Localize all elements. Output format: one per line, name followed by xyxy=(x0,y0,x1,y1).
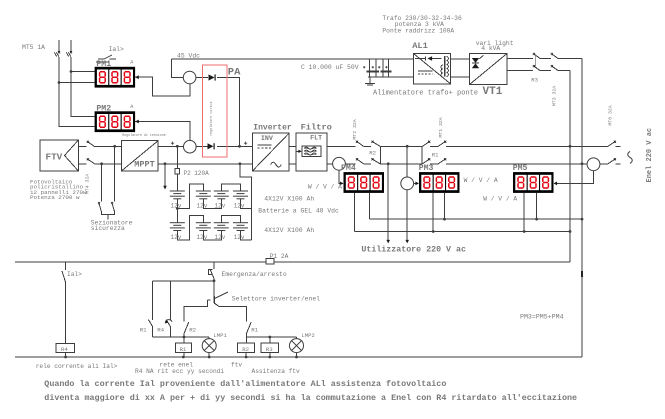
svg-text:Ial>: Ial> xyxy=(109,46,125,53)
svg-text:R2: R2 xyxy=(369,149,376,156)
svg-text:MT2 32A: MT2 32A xyxy=(352,119,358,139)
svg-text:R4: R4 xyxy=(61,346,68,353)
svg-text:MT5 1A: MT5 1A xyxy=(22,44,45,51)
svg-text:MPPT: MPPT xyxy=(134,160,154,170)
svg-text:diventa maggiore di xx A per +: diventa maggiore di xx A per + di yy sec… xyxy=(44,393,577,403)
svg-text:R1: R1 xyxy=(140,327,147,334)
svg-text:MT1 32A: MT1 32A xyxy=(438,117,444,137)
svg-text:A: A xyxy=(130,104,133,110)
svg-text:PM3: PM3 xyxy=(419,164,434,173)
svg-text:Batterie a GEL 48 Vdc: Batterie a GEL 48 Vdc xyxy=(258,208,339,215)
svg-text:PM5: PM5 xyxy=(513,164,528,173)
svg-text:P1 2A: P1 2A xyxy=(270,253,289,260)
svg-text:W / V / A: W / V / A xyxy=(464,177,498,184)
svg-text:4X12V X100 Ah: 4X12V X100 Ah xyxy=(264,227,314,234)
svg-text:Selettore inverter/enel: Selettore inverter/enel xyxy=(232,295,320,302)
svg-text:P2 120A: P2 120A xyxy=(184,170,210,177)
svg-text:FTV: FTV xyxy=(46,152,63,163)
svg-text:A: A xyxy=(130,59,133,65)
svg-text:R1: R1 xyxy=(432,151,439,158)
svg-text:12v: 12v xyxy=(197,234,208,241)
svg-text:LMP1: LMP1 xyxy=(213,332,227,339)
svg-text:AL1: AL1 xyxy=(412,41,428,51)
svg-text:12v: 12v xyxy=(197,202,208,209)
svg-text:MT3 32A: MT3 32A xyxy=(551,86,557,106)
svg-text:Inverter: Inverter xyxy=(253,124,292,133)
svg-text:12v: 12v xyxy=(215,202,226,209)
svg-text:PM4: PM4 xyxy=(341,164,356,173)
svg-text:sicurezza: sicurezza xyxy=(91,225,125,232)
svg-text:W / V / A: W / V / A xyxy=(483,195,517,202)
svg-text:12v: 12v xyxy=(171,202,182,209)
svg-text:LMP2: LMP2 xyxy=(301,332,314,339)
svg-text:MT4 32A: MT4 32A xyxy=(84,174,90,194)
svg-text:12v: 12v xyxy=(171,234,182,241)
svg-text:Alimentatore trafo+ ponte: Alimentatore trafo+ ponte xyxy=(373,89,478,97)
svg-text:R2: R2 xyxy=(242,346,249,353)
svg-text:45 Vdc: 45 Vdc xyxy=(177,52,200,59)
svg-text:12v: 12v xyxy=(234,234,245,241)
svg-text:regolatore carica: regolatore carica xyxy=(209,101,214,136)
svg-text:R4 NA rit ecc yy secondi: R4 NA rit ecc yy secondi xyxy=(135,368,224,375)
svg-text:ftv: ftv xyxy=(231,361,242,368)
svg-text:rele corrente ali Ial>: rele corrente ali Ial> xyxy=(36,363,118,370)
svg-text:PM1: PM1 xyxy=(96,60,111,69)
svg-text:12v: 12v xyxy=(215,234,226,241)
svg-text:INV: INV xyxy=(261,135,273,143)
svg-text:12v: 12v xyxy=(234,202,245,209)
svg-text:R4: R4 xyxy=(157,327,164,334)
svg-text:4X12V X100 Ah: 4X12V X100 Ah xyxy=(264,196,314,203)
svg-text:PM2: PM2 xyxy=(96,105,111,114)
svg-text:R1: R1 xyxy=(180,346,187,353)
svg-text:PA: PA xyxy=(228,66,241,78)
svg-text:Emergenza/arresto: Emergenza/arresto xyxy=(222,271,287,278)
svg-text:MT0 32A: MT0 32A xyxy=(607,105,613,125)
svg-text:C 10.000 uF 50V: C 10.000 uF 50V xyxy=(301,64,359,71)
svg-text:Ial>: Ial> xyxy=(67,271,82,278)
svg-text:R3: R3 xyxy=(266,346,273,353)
svg-text:Ponte raddrizz 100A: Ponte raddrizz 100A xyxy=(382,28,454,35)
svg-text:FLT: FLT xyxy=(310,135,322,143)
svg-text:R1: R1 xyxy=(251,327,258,334)
svg-text:R2: R2 xyxy=(189,327,196,334)
svg-text:Potenza 2700 w: Potenza 2700 w xyxy=(30,194,80,201)
svg-text:Assitenza ftv: Assitenza ftv xyxy=(252,368,301,375)
svg-text:VT1: VT1 xyxy=(483,86,503,98)
svg-text:Quando la corrente Ial proveni: Quando la corrente Ial proveniente dall'… xyxy=(44,379,446,389)
svg-text:Filtro: Filtro xyxy=(301,123,332,133)
svg-text:Regolatore di tensione: Regolatore di tensione xyxy=(122,133,166,137)
svg-text:W / V / A: W / V / A xyxy=(308,183,342,190)
svg-text:Utilizzatore 220 V ac: Utilizzatore 220 V ac xyxy=(361,244,466,254)
svg-text:4 kVA: 4 kVA xyxy=(481,45,500,52)
svg-text:PM3=PM5+PM4: PM3=PM5+PM4 xyxy=(520,314,564,321)
svg-text:R3: R3 xyxy=(531,77,538,84)
svg-text:Enel 220 V ac: Enel 220 V ac xyxy=(646,128,654,183)
